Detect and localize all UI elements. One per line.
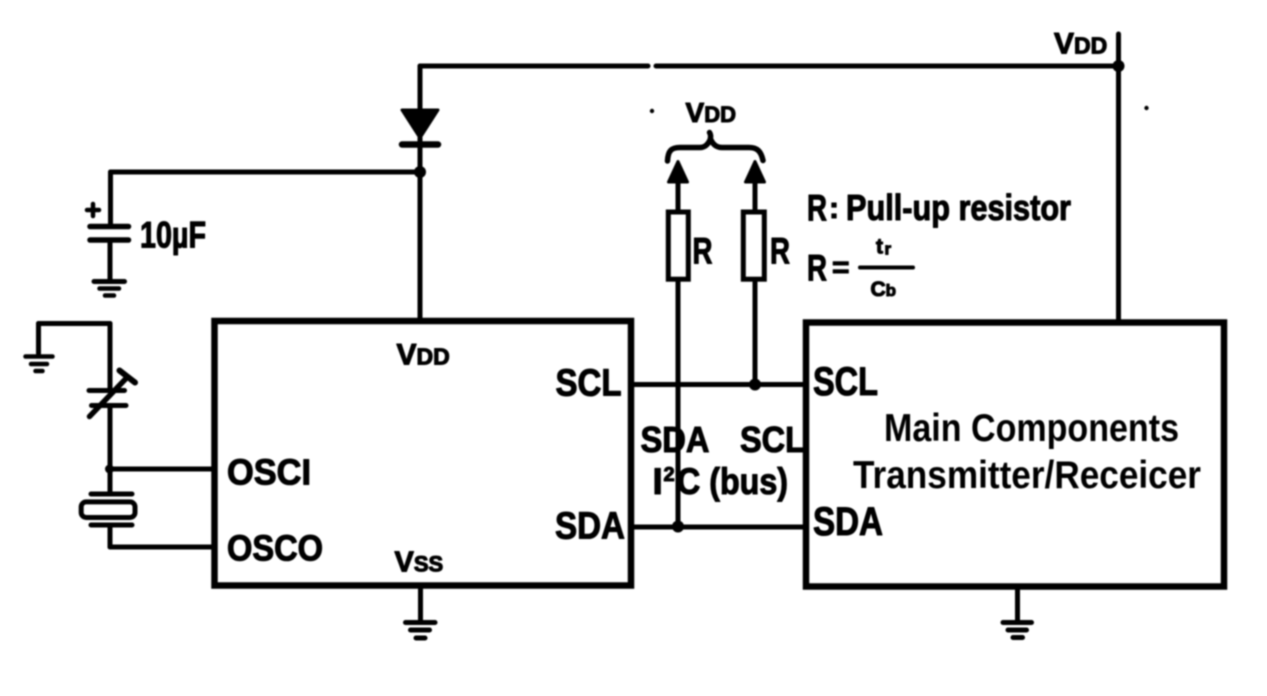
svg-text:t: t (876, 236, 883, 259)
svg-text:=: = (832, 251, 850, 284)
svg-text:OSCO: OSCO (227, 528, 323, 569)
svg-text:VDD: VDD (397, 339, 450, 372)
svg-text:C (bus): C (bus) (677, 461, 788, 502)
svg-text:Cb: Cb (871, 278, 897, 301)
svg-text:Pull-up resistor: Pull-up resistor (846, 187, 1071, 228)
svg-text:OSCI: OSCI (227, 452, 311, 493)
svg-text:R: R (770, 231, 790, 272)
svg-text:VSS: VSS (395, 547, 444, 579)
svg-text:SDA: SDA (641, 419, 710, 460)
svg-text:SCL: SCL (556, 363, 622, 405)
svg-text::: : (829, 192, 839, 225)
svg-text:R: R (693, 231, 713, 272)
svg-text:R: R (807, 248, 827, 289)
svg-text:VDD: VDD (686, 97, 736, 128)
svg-text:10µF: 10µF (140, 215, 206, 256)
svg-text:Main Components: Main Components (884, 407, 1179, 450)
svg-text:Transmitter/Receicer: Transmitter/Receicer (853, 454, 1201, 497)
svg-text:VDD: VDD (1054, 28, 1107, 61)
svg-text:I: I (653, 461, 663, 502)
svg-text:SCL: SCL (740, 419, 805, 460)
svg-text:R: R (807, 188, 827, 229)
svg-text:r: r (885, 240, 892, 259)
svg-text:SDA: SDA (555, 506, 625, 548)
svg-text:SCL: SCL (813, 360, 878, 404)
svg-text:SDA: SDA (813, 500, 883, 544)
svg-text:2: 2 (664, 464, 675, 486)
